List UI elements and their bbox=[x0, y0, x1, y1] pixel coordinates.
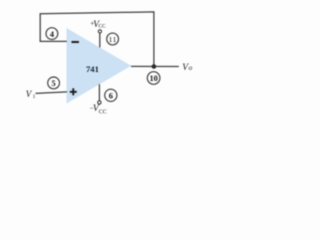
svg-text:o: o bbox=[189, 64, 193, 72]
svg-text:CC: CC bbox=[99, 110, 107, 116]
svg-text:10: 10 bbox=[149, 74, 157, 83]
svg-text:5: 5 bbox=[52, 79, 56, 88]
svg-text:1: 1 bbox=[33, 94, 36, 100]
svg-text:CC: CC bbox=[98, 23, 106, 29]
svg-text:11: 11 bbox=[109, 35, 117, 44]
svg-text:4: 4 bbox=[50, 30, 54, 39]
svg-text:741: 741 bbox=[86, 64, 99, 74]
svg-text:6: 6 bbox=[109, 92, 113, 101]
